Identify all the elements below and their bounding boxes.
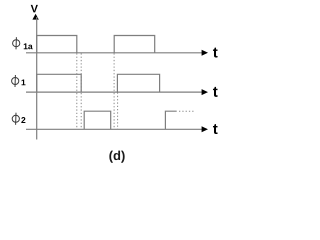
t label row 2 [213,87,218,97]
t axis row 2 [26,91,203,93]
t axis row 1 [26,52,203,54]
caption (d) [109,151,124,163]
axis label V [31,5,38,13]
label phi1 symbol [12,75,19,87]
dotted align line at phi1 fall [80,53,82,129]
phi2 waveform pulse 2 rising edge and solid top [165,111,176,129]
arrowhead t axis row 1 [202,50,208,56]
phi1a waveform pulse 1 [37,36,77,53]
arrowhead t axis row 2 [202,89,208,95]
arrowhead t axis row 3 [202,126,208,132]
dotted align line at phi1a fall [76,53,78,129]
label phi1a subscript [24,43,33,49]
label phi1 subscript [22,79,26,85]
t axis row 3 [26,128,203,130]
t label row 3 [213,124,218,134]
dotted align line at phi1a rise [113,53,115,129]
V axis arrowhead [32,14,38,20]
phi2 waveform pulse 1 [84,111,111,129]
phi1 waveform pulse 1 [37,74,81,92]
phi2 pulse 2 dotted continuation [179,110,195,112]
label phi1a symbol [13,37,20,49]
label phi2 subscript [21,117,25,123]
vertical V axis [36,17,38,140]
phi1 waveform pulse 2 [117,74,159,92]
dotted align line at phi1 rise [117,93,119,130]
label phi2 symbol [12,113,19,125]
phi1a waveform pulse 2 [114,36,155,53]
t label row 1 [213,48,218,58]
